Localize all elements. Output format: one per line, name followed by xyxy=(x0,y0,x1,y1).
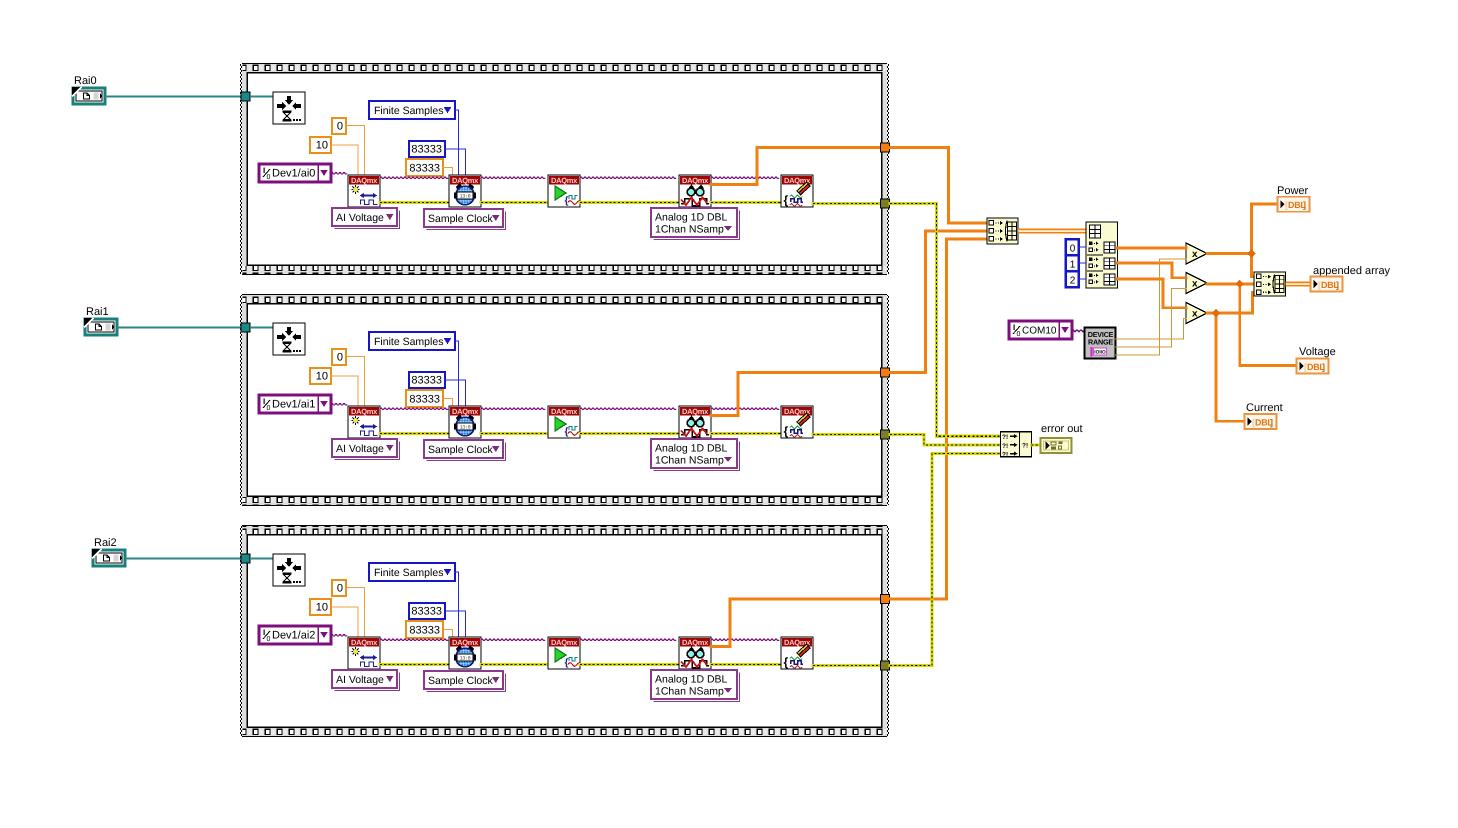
ring Sample Clock xyxy=(424,209,506,230)
error wire timing-start xyxy=(481,201,548,204)
svg-text:?!: ?! xyxy=(1022,443,1028,450)
wire numeric 0 xyxy=(346,357,365,407)
Build Array node xyxy=(987,218,1018,244)
wire orange 83333 to timing xyxy=(443,399,453,407)
path wire inside frame 2 xyxy=(250,327,273,329)
ring Analog 1D DBL 1Chan NSamp xyxy=(651,670,740,702)
svg-text:13:0: 13:0 xyxy=(460,193,471,199)
tunnel (path) frame 2 xyxy=(241,323,250,332)
I/O constant Dev1/ai0 xyxy=(259,164,331,182)
svg-text:DAQmx: DAQmx xyxy=(351,638,378,647)
task wire create-timing xyxy=(380,177,448,179)
svg-text:13:0: 13:0 xyxy=(460,424,471,430)
svg-text:DAQmx: DAQmx xyxy=(551,407,578,416)
svg-text:10: 10 xyxy=(316,371,328,383)
error wire clear to tunnel frame 1 xyxy=(813,202,881,205)
svg-text:]: ] xyxy=(1322,362,1325,372)
svg-text:]: ] xyxy=(1336,280,1339,290)
svg-text:AI Voltage: AI Voltage xyxy=(336,674,384,686)
task wire dev to create xyxy=(331,172,347,174)
wire index out 2 to multiply 2 xyxy=(1118,263,1187,278)
svg-text:Current: Current xyxy=(1246,402,1283,414)
svg-text:0: 0 xyxy=(337,583,343,595)
task wire dev to create xyxy=(331,403,347,405)
multiply node 3 xyxy=(1186,303,1207,324)
tunnel (data) frame 1 xyxy=(881,143,890,152)
numeric constant 0 xyxy=(332,118,346,134)
error wire frame1 to merge xyxy=(890,204,1001,437)
wire numeric 10 xyxy=(331,376,358,406)
svg-text:83333: 83333 xyxy=(409,394,440,406)
tunnel (path) frame 3 xyxy=(241,554,250,563)
ring Analog 1D DBL 1Chan NSamp xyxy=(651,439,740,471)
svg-text:Rai0: Rai0 xyxy=(74,75,97,87)
data wire frame1 to build array xyxy=(890,148,987,224)
svg-text:Rai1: Rai1 xyxy=(86,306,109,318)
svg-text:1Chan NSamp: 1Chan NSamp xyxy=(655,686,724,698)
error wire clear to tunnel frame 3 xyxy=(813,664,881,667)
svg-text:83333: 83333 xyxy=(411,144,442,156)
indicator Current xyxy=(1245,402,1283,429)
error wire start-read xyxy=(580,663,679,666)
svg-text:DAQmx: DAQmx xyxy=(452,638,479,647)
DAQmx Timing xyxy=(449,175,481,207)
task wire timing-start xyxy=(481,639,545,641)
svg-text:13:0: 13:0 xyxy=(460,655,471,661)
wire blue 83333 to timing xyxy=(445,611,466,637)
2D array wire build to index xyxy=(1018,228,1086,230)
task wire start-read xyxy=(580,408,676,410)
error wire frame3 to merge xyxy=(890,454,1001,666)
svg-text:Sample Clock: Sample Clock xyxy=(428,213,494,225)
svg-text:1Chan NSamp: 1Chan NSamp xyxy=(655,224,724,236)
svg-text:x: x xyxy=(1192,279,1198,290)
wire Finite Samples to timing xyxy=(455,572,459,637)
DAQmx Read xyxy=(679,175,711,207)
svg-text:83333: 83333 xyxy=(409,163,440,175)
path wire Rai1 to frame 2 xyxy=(117,327,241,329)
task wire read-clear xyxy=(711,177,779,179)
svg-text:?!: ?! xyxy=(1002,434,1008,441)
indicator appended array xyxy=(1311,265,1391,292)
svg-text:DAQmx: DAQmx xyxy=(452,176,479,185)
svg-text:{: { xyxy=(565,658,569,669)
task wire read-clear xyxy=(711,408,779,410)
svg-text:x: x xyxy=(1192,309,1198,320)
wire numeric 0 xyxy=(346,126,365,176)
wire index 0 xyxy=(1079,246,1087,248)
tunnel (path) frame 1 xyxy=(241,92,250,101)
wire orange 83333 to timing xyxy=(443,630,453,638)
svg-text:1: 1 xyxy=(1070,260,1076,271)
svg-text:AI Voltage: AI Voltage xyxy=(336,212,384,224)
Stall Data Flow VI xyxy=(273,554,305,586)
error wire merge to error out xyxy=(1032,443,1041,446)
Device Range subVI xyxy=(1085,328,1116,359)
svg-text:83333: 83333 xyxy=(411,375,442,387)
Merge Errors node xyxy=(1001,432,1032,459)
svg-text:1Chan NSamp: 1Chan NSamp xyxy=(655,455,724,467)
DAQmx Timing xyxy=(449,406,481,438)
svg-text:AI Voltage: AI Voltage xyxy=(336,443,384,455)
numeric constant 83333 xyxy=(409,141,445,157)
ring AI Voltage xyxy=(332,208,400,229)
svg-text:Dev1/ai1: Dev1/ai1 xyxy=(272,399,315,411)
DAQmx Clear Task xyxy=(781,637,813,669)
svg-text:Sample Clock: Sample Clock xyxy=(428,675,494,687)
task wire dev to create xyxy=(331,634,347,636)
error wire create-timing xyxy=(380,663,449,666)
scalar wire device range out2 to multiply2 xyxy=(1116,288,1187,347)
svg-text:Voltage: Voltage xyxy=(1299,346,1336,358)
numeric constant 10 xyxy=(310,599,331,615)
svg-text:DAQmx: DAQmx xyxy=(551,638,578,647)
svg-text:?!: ?! xyxy=(1002,452,1008,459)
svg-text:Dev1/ai0: Dev1/ai0 xyxy=(272,168,315,180)
Build Array node 2 (appended) xyxy=(1254,272,1286,296)
tunnel (data) frame 2 xyxy=(881,368,890,377)
svg-text:0: 0 xyxy=(337,121,343,133)
wire multiply2 to build array 2 and Voltage xyxy=(1207,283,1254,286)
Index Array node xyxy=(1086,222,1118,288)
VISA resource COM10 xyxy=(1009,321,1072,339)
svg-text:I: I xyxy=(263,397,265,406)
tunnel (error) frame 2 xyxy=(881,430,890,439)
DAQmx Read xyxy=(679,637,711,669)
numeric constant 83333 xyxy=(409,603,445,619)
indicator Power xyxy=(1277,185,1310,212)
svg-text:]: ] xyxy=(1270,418,1273,428)
error wire create-timing xyxy=(380,432,449,435)
svg-text:DAQmx: DAQmx xyxy=(551,176,578,185)
path control Rai0 xyxy=(72,75,105,104)
wire numeric 10 xyxy=(331,607,358,637)
svg-text:{: { xyxy=(565,196,569,207)
wire blue 83333 to timing xyxy=(445,380,466,406)
error wire clear to tunnel frame 2 xyxy=(813,433,881,436)
svg-text:I: I xyxy=(1013,323,1015,332)
task wire read-clear xyxy=(711,639,779,641)
enum constant Finite Samples xyxy=(369,101,455,119)
svg-text:DAQmx: DAQmx xyxy=(351,407,378,416)
svg-text:{: { xyxy=(784,655,789,669)
ring AI Voltage xyxy=(332,439,400,460)
error wire timing-start xyxy=(481,432,548,435)
svg-text:I: I xyxy=(263,166,265,175)
I/O constant Dev1/ai2 xyxy=(259,626,331,644)
svg-text:Power: Power xyxy=(1277,185,1309,197)
indicator error out xyxy=(1041,423,1083,453)
DAQmx Start Task xyxy=(548,406,580,438)
DAQmx Create Virtual Channel xyxy=(348,175,380,207)
svg-text:Analog 1D DBL: Analog 1D DBL xyxy=(655,674,728,686)
task wire timing-start xyxy=(481,408,545,410)
wire index 1 xyxy=(1079,262,1087,264)
path wire Rai0 to frame 1 xyxy=(105,96,241,98)
Stall Data Flow VI xyxy=(273,92,305,124)
svg-text:error out: error out xyxy=(1041,423,1083,435)
data wire read output frame 3 xyxy=(711,599,881,647)
multiply node 1 xyxy=(1186,243,1207,264)
svg-text:DAQmx: DAQmx xyxy=(351,176,378,185)
Stall Data Flow VI xyxy=(273,323,305,355)
error wire read-clear xyxy=(711,201,781,204)
DAQmx Timing xyxy=(449,637,481,669)
task wire create-timing xyxy=(380,639,448,641)
svg-text:Analog 1D DBL: Analog 1D DBL xyxy=(655,443,728,455)
svg-text:{: { xyxy=(784,424,789,438)
svg-text:Finite Samples: Finite Samples xyxy=(374,567,443,579)
I/O constant Dev1/ai1 xyxy=(259,395,331,413)
wire multiply3 to build array 2 and Current xyxy=(1207,292,1254,313)
svg-text:2: 2 xyxy=(1070,276,1076,287)
ring Sample Clock xyxy=(424,440,506,461)
path control Rai2 xyxy=(92,537,125,566)
svg-text:DAQmx: DAQmx xyxy=(452,407,479,416)
numeric constant 83333 xyxy=(409,372,445,388)
svg-text:10: 10 xyxy=(316,602,328,614)
tunnel (error) frame 1 xyxy=(881,199,890,208)
svg-text:{: { xyxy=(784,193,789,207)
DAQmx Start Task xyxy=(548,637,580,669)
svg-text:83333: 83333 xyxy=(411,606,442,618)
index constant 2 xyxy=(1066,271,1079,287)
svg-text:x: x xyxy=(1192,249,1198,260)
numeric constant 83333 xyxy=(406,390,443,407)
svg-text:{: { xyxy=(565,427,569,438)
svg-text:]: ] xyxy=(1303,200,1306,210)
path wire Rai2 to frame 3 xyxy=(125,558,241,560)
task wire start-read xyxy=(580,177,676,179)
numeric constant 83333 xyxy=(406,159,443,176)
error wire start-read xyxy=(580,432,679,435)
svg-text:Rai2: Rai2 xyxy=(94,537,117,549)
DAQmx Read xyxy=(679,406,711,438)
wire index 2 xyxy=(1079,278,1087,280)
enum constant Finite Samples xyxy=(369,563,455,581)
error wire read-clear xyxy=(711,663,781,666)
task wire start-read xyxy=(580,639,676,641)
path control Rai1 xyxy=(84,306,117,335)
tunnel (error) frame 3 xyxy=(881,661,890,670)
wire Finite Samples to timing xyxy=(455,341,459,406)
2D array wire to appended array xyxy=(1286,281,1311,283)
svg-text:0: 0 xyxy=(1070,244,1076,255)
svg-text:0: 0 xyxy=(267,405,271,412)
error wire timing-start xyxy=(481,663,548,666)
error wire read-clear xyxy=(711,432,781,435)
svg-text:10: 10 xyxy=(316,140,328,152)
svg-text:RANGE: RANGE xyxy=(1088,338,1113,347)
ring Analog 1D DBL 1Chan NSamp xyxy=(651,208,740,240)
indicator Voltage xyxy=(1297,346,1336,374)
svg-text:DAQmx: DAQmx xyxy=(682,176,709,185)
svg-text:I: I xyxy=(263,628,265,637)
wire numeric 0 xyxy=(346,588,365,638)
numeric constant 0 xyxy=(332,580,346,596)
path wire inside frame 3 xyxy=(250,558,273,560)
data wire read output frame 1 xyxy=(711,148,881,185)
numeric constant 0 xyxy=(332,349,346,365)
svg-text:Dev1/ai2: Dev1/ai2 xyxy=(272,630,315,642)
DAQmx Clear Task xyxy=(781,406,813,438)
svg-text:0: 0 xyxy=(267,636,271,643)
ring Sample Clock xyxy=(424,671,506,692)
svg-text:IOIIO: IOIIO xyxy=(1094,350,1106,356)
numeric constant 10 xyxy=(310,368,331,384)
data wire read output frame 2 xyxy=(711,373,881,416)
DAQmx Start Task xyxy=(548,175,580,207)
flat sequence structure frame 3 xyxy=(240,525,889,737)
svg-text:DAQmx: DAQmx xyxy=(682,407,709,416)
task wire timing-start xyxy=(481,177,545,179)
wire blue 83333 to timing xyxy=(445,149,466,175)
svg-text:0: 0 xyxy=(1017,331,1021,338)
scalar wire device range out1 to multiply3 xyxy=(1116,318,1187,339)
ring AI Voltage xyxy=(332,670,400,691)
index constant 0 xyxy=(1066,239,1079,255)
scalar wire device range out3 to multiply1 xyxy=(1116,259,1187,355)
svg-text:DAQmx: DAQmx xyxy=(682,638,709,647)
flat sequence structure frame 1 xyxy=(240,63,889,275)
enum constant Finite Samples xyxy=(369,332,455,350)
svg-text:Sample Clock: Sample Clock xyxy=(428,444,494,456)
data wire frame3 to build array xyxy=(890,239,987,599)
DAQmx Create Virtual Channel xyxy=(348,406,380,438)
error wire create-timing xyxy=(380,201,449,204)
svg-text:83333: 83333 xyxy=(409,625,440,637)
numeric constant 83333 xyxy=(406,621,443,638)
index constant 1 xyxy=(1066,255,1079,271)
svg-text:appended array: appended array xyxy=(1313,265,1391,277)
wire orange 83333 to timing xyxy=(443,168,453,176)
svg-text:Analog 1D DBL: Analog 1D DBL xyxy=(655,212,728,224)
svg-text:?!: ?! xyxy=(1002,443,1008,450)
wire multiply1 to Power and build array 2 xyxy=(1207,252,1252,255)
svg-text:COM10: COM10 xyxy=(1022,326,1057,337)
flat sequence structure frame 2 xyxy=(240,294,889,506)
svg-text:0: 0 xyxy=(267,174,271,181)
VISA wire COM10 to Device Range xyxy=(1072,330,1084,332)
task wire create-timing xyxy=(380,408,448,410)
DAQmx Create Virtual Channel xyxy=(348,637,380,669)
wire Finite Samples to timing xyxy=(455,110,459,175)
DAQmx Clear Task xyxy=(781,175,813,207)
svg-text:Finite Samples: Finite Samples xyxy=(374,105,443,117)
tunnel (data) frame 3 xyxy=(881,595,890,604)
numeric constant 10 xyxy=(310,137,331,153)
wire index out 3 to multiply 3 xyxy=(1118,279,1187,308)
svg-text:Finite Samples: Finite Samples xyxy=(374,336,443,348)
data wire frame2 to build array xyxy=(890,231,987,373)
error wire start-read xyxy=(580,201,679,204)
multiply node 2 xyxy=(1186,273,1207,294)
wire index out 1 to multiply 1 xyxy=(1118,247,1187,250)
wire numeric 10 xyxy=(331,145,358,175)
error wire frame2 to merge xyxy=(890,435,1001,445)
svg-text:0: 0 xyxy=(337,352,343,364)
path wire inside frame 1 xyxy=(250,96,273,98)
